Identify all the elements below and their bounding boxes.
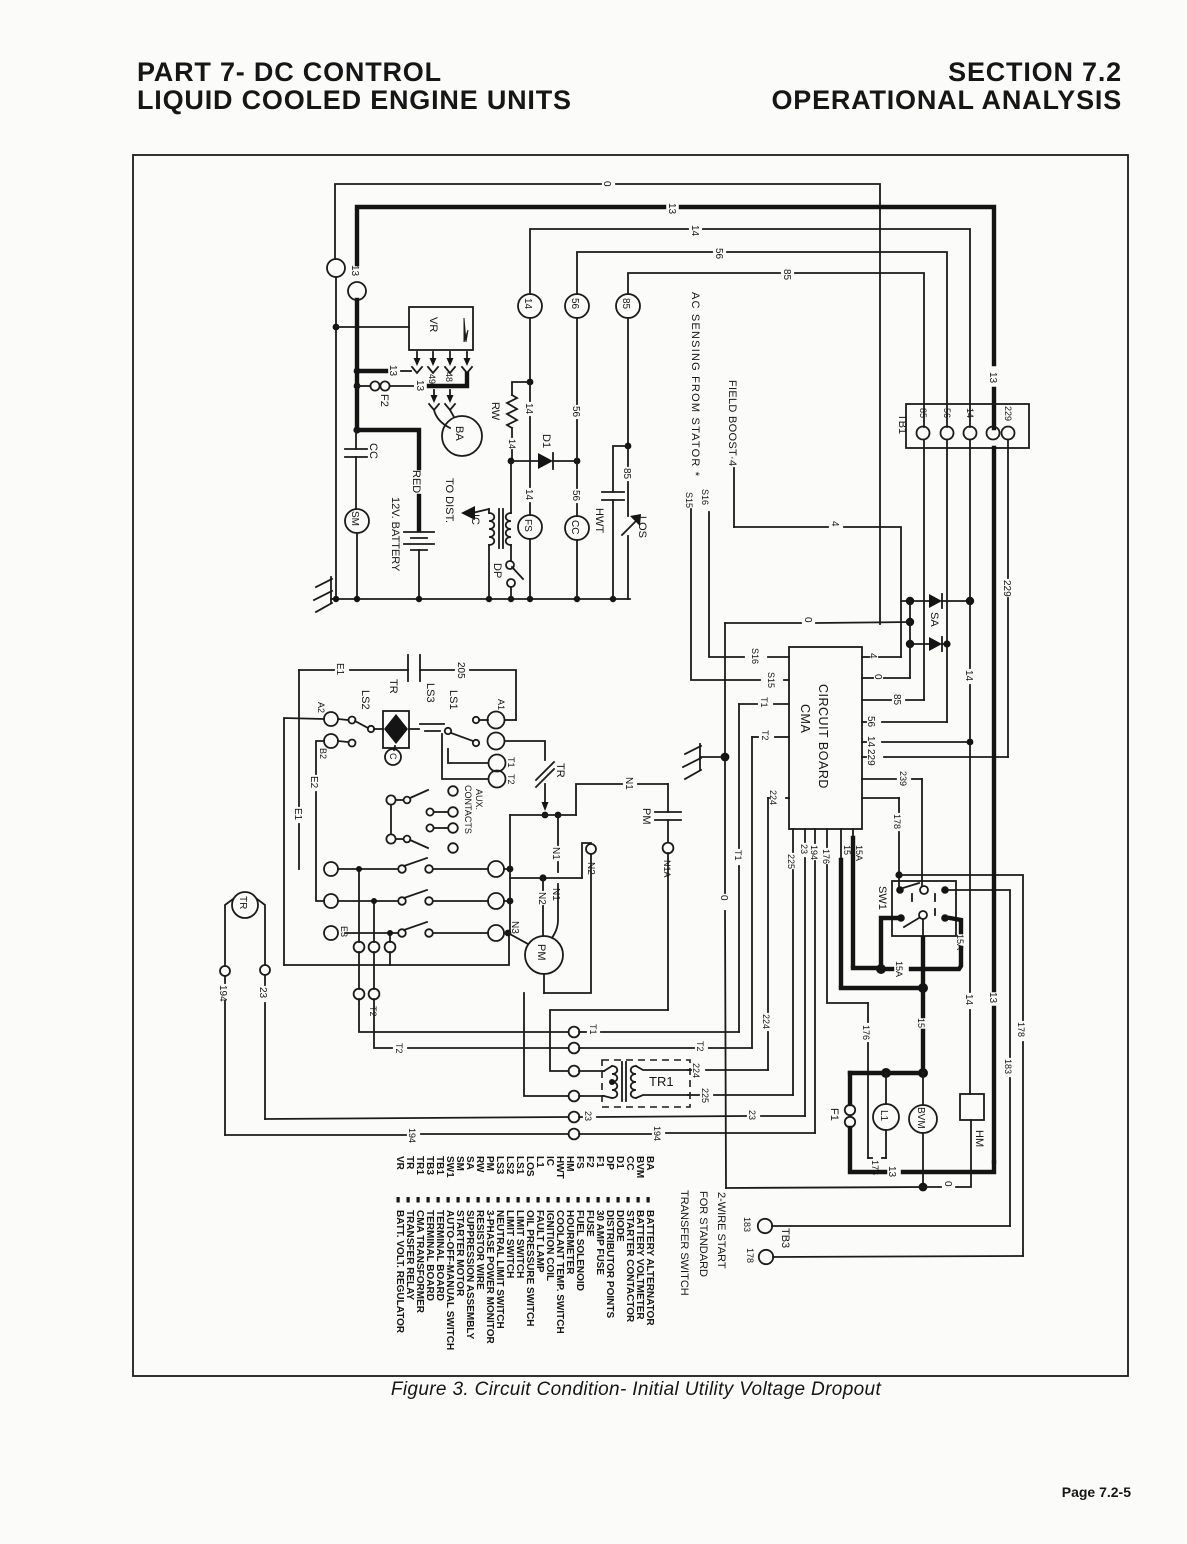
distributor points DP [506,561,523,599]
2-WIRE START note [678,1190,727,1296]
svg-text:SECTION 7.2: SECTION 7.2 [948,57,1122,87]
node junction N1 branch [555,812,562,819]
row 23 wire [265,1116,805,1119]
fuse F2 [357,381,413,390]
motor C [385,749,401,765]
node 56 labels on drop [570,406,581,502]
svg-text:VR: VR [427,317,439,332]
SW1 row2 pole drop [922,919,924,938]
limit switch LS2 [355,721,383,732]
wire 178 over SW1 [773,875,1023,1257]
svg-text:TB3: TB3 [779,1228,791,1248]
capacitor CC suppressor [345,430,367,509]
connector circle row T2 [569,1043,580,1054]
svg-text:T2: T2 [394,1043,404,1054]
wire E1 left drop [298,670,300,869]
svg-text:N1: N1 [623,777,634,790]
svg-text:E1: E1 [292,808,303,821]
AUX CONTACTS label [463,785,484,834]
terminal B1 [488,733,546,761]
wire F1 leg thick [848,1073,852,1104]
CMA pin 56 wire [862,440,947,722]
contact row E3 [324,922,511,941]
terminal T1 coil [448,749,506,772]
connector circle row 225 [569,1091,580,1102]
svg-text:TR: TR [554,763,566,778]
svg-text:14: 14 [523,403,534,415]
svg-text:LS1: LS1 [447,690,459,710]
svg-text:229: 229 [865,749,876,766]
node junction BVM top [918,1068,928,1078]
svg-text:178: 178 [745,1248,755,1263]
svg-text:HM: HM [973,1130,985,1147]
CMA pin 225 drop [792,829,794,1095]
svg-text:15A: 15A [854,845,864,861]
node N1 labels on drop [550,847,561,901]
pin 49 second connector pair [429,390,450,428]
suppression assembly SA diode lower [906,637,951,651]
svg-text:225: 225 [786,854,796,869]
svg-text:Page 7.2-5: Page 7.2-5 [1062,1484,1131,1500]
CMA pin 85 wire [862,440,924,700]
svg-text:CMA: CMA [798,704,812,733]
actuator coil C box [383,711,409,750]
row T1 wire right [579,1031,739,1033]
wire to VR box [336,326,409,328]
wire CC to bus [576,540,578,599]
svg-text:E3: E3 [339,926,349,937]
aux vertical tie [390,805,392,834]
svg-text:224: 224 [691,1063,701,1078]
node 14 labels on TB1 drop [963,670,974,1006]
svg-text:S15: S15 [766,672,776,688]
svg-text:DP: DP [491,563,503,578]
ground symbol main [314,577,338,612]
node junction 14 pin [967,739,974,746]
svg-text:RED: RED [410,470,422,493]
VR pin 4 arrow and fork [462,352,472,373]
svg-text:T2: T2 [506,774,516,785]
wire RED lower [417,496,421,530]
wire lamp bus thick [850,1071,923,1075]
svg-text:23: 23 [257,987,268,999]
svg-text:VR: VR [394,1156,405,1171]
aux contact row A [386,786,457,804]
coolant temp switch HWT [602,446,628,599]
CMA pin 229 wire [862,756,1008,758]
terminal A2 [324,712,356,726]
svg-text:S15: S15 [684,492,694,508]
wire net 85 rail [628,273,924,427]
wire 56 drop [576,318,578,516]
svg-text:14: 14 [507,439,517,449]
svg-text:N1A: N1A [662,860,672,878]
svg-text:LIQUID COOLED ENGINE UNITS: LIQUID COOLED ENGINE UNITS [137,85,572,115]
wire thick to RED battery lead [357,430,419,468]
node junction 15A [876,964,886,974]
svg-text:PART 7- DC CONTROL: PART 7- DC CONTROL [137,57,442,87]
svg-text:85: 85 [620,298,631,310]
connector circle row T1 [569,1027,580,1038]
row 194 wire [225,1133,815,1135]
SW1 row1 contacts [896,883,949,901]
svg-text:TR: TR [387,679,399,694]
bus junction dots [333,596,616,602]
row 224 wire to TR1 [579,1070,604,1072]
svg-text:FOR STANDARD: FOR STANDARD [697,1191,709,1277]
fuse F1 [845,1105,855,1127]
CMA pin 239 wire [862,779,922,886]
svg-text:194: 194 [809,845,819,860]
starter motor SM [345,509,369,533]
svg-text:PM: PM [640,808,652,825]
svg-text:48: 48 [444,372,454,382]
svg-text:HWT: HWT [593,508,605,533]
node junction D1 left [508,458,515,465]
terminal circle 14 [518,294,542,318]
svg-text:N3: N3 [509,921,520,934]
svg-text:4: 4 [867,653,878,659]
wire 14 drop [529,318,531,382]
svg-text:0: 0 [601,181,612,187]
connector pair column T1 [354,866,568,1032]
svg-text:AUX.: AUX. [474,789,484,810]
svg-text:OPERATIONAL ANALYSIS: OPERATIONAL ANALYSIS [771,85,1122,115]
svg-text:85: 85 [781,269,792,281]
svg-text:CIRCUIT BOARD: CIRCUIT BOARD [816,684,830,789]
svg-text:15: 15 [842,845,852,855]
wire 13 upper stub [335,277,337,599]
wire net 0 drop to bottom [725,757,726,1188]
svg-text:F2: F2 [378,394,390,407]
svg-text:15A: 15A [955,934,965,950]
wire 15A to SW1 row2 left [881,918,897,966]
transformer TR1 box [602,1060,690,1107]
svg-text:LS3: LS3 [424,683,436,703]
voltage regulator VR [409,307,473,350]
svg-text:T1: T1 [759,697,769,708]
CMA pin T1 wire [739,703,789,705]
svg-text:56: 56 [865,716,876,728]
svg-text:229: 229 [1003,406,1013,421]
svg-text:14: 14 [523,489,534,501]
svg-text:12V. BATTERY: 12V. BATTERY [389,497,401,572]
svg-text:BATT. VOLT. REGULATOR: BATT. VOLT. REGULATOR [394,1210,405,1334]
svg-text:176: 176 [821,849,831,864]
diode D1 [511,453,577,469]
VR pin 3 arrow and fork [445,352,455,373]
terminal board TB1 [906,404,1029,448]
svg-text:TB1: TB1 [896,414,908,434]
wire 229 TB1 drop [1007,440,1009,757]
TO DIST arrow [461,506,489,520]
row 225 wire to TR1 [579,1095,604,1097]
svg-text:D1: D1 [540,434,552,448]
svg-text:AC SENSING FROM STATOR *: AC SENSING FROM STATOR * [689,292,701,477]
svg-text:14: 14 [965,408,975,418]
connector circle row 194 [569,1129,580,1140]
starter contactor CC [565,516,589,540]
svg-text:4: 4 [829,521,840,527]
svg-text:23: 23 [747,1110,757,1120]
fault lamp L1 [873,1073,899,1158]
ignition coil IC [489,509,511,599]
svg-text:56: 56 [569,298,580,310]
node junction battery feed [353,426,360,433]
hourmeter HM [960,1094,984,1120]
svg-text:TO DIST.: TO DIST. [443,478,455,523]
wire N2 junction run [510,843,591,878]
svg-text:CC: CC [569,520,580,534]
node junction HWT branch [625,443,632,450]
svg-text:LS2: LS2 [359,690,371,710]
svg-text:15A: 15A [894,961,904,977]
svg-text:14: 14 [522,298,533,310]
connector circle row 224 [569,1066,580,1077]
svg-text:BVM: BVM [915,1107,926,1129]
svg-text:E2: E2 [308,776,319,789]
CMA pin 4 stub [862,656,901,658]
svg-text:TR: TR [237,896,248,909]
svg-text:56: 56 [570,490,581,502]
CMA pin 15A thick drop [853,829,876,968]
node junction BVM 0 [919,1183,928,1192]
svg-text:14: 14 [865,736,876,748]
svg-text:49: 49 [427,374,437,384]
svg-text:13: 13 [387,365,398,377]
terminal circle 56 [565,294,589,318]
CMA pin 23 drop [804,829,806,1116]
wire SM to ground bus [356,533,358,599]
svg-text:BA: BA [453,426,465,441]
CMA pin 194 drop [814,829,816,1133]
wire N2 long drop [544,854,591,993]
wire net 0 top rail [335,184,880,624]
svg-text:SW1: SW1 [876,886,888,910]
wire 13 row thick right [903,1162,994,1172]
svg-text:13: 13 [666,203,677,215]
svg-text:224: 224 [761,1014,771,1029]
node junction VR feed [333,324,340,331]
svg-text:0: 0 [942,1181,953,1187]
terminal B2 [324,734,356,748]
svg-text:N1: N1 [550,888,561,901]
wire net 13 thick top rail [357,207,994,428]
wire 85 drop [627,318,629,446]
CMA pin 14 wire [862,741,970,743]
wire A2 to left edge [284,718,324,965]
wire E1 to TR cap [299,669,408,671]
wire net 56 rail [577,252,947,427]
SA bus vertical [909,601,911,678]
TR1 windings [604,1062,688,1101]
wire 15 pole thick [921,938,925,1073]
svg-text:N2: N2 [536,892,547,905]
svg-text:229: 229 [1001,580,1012,597]
svg-text:23: 23 [799,844,809,854]
wire 85 lower [627,446,629,599]
node junction N2 [539,874,546,881]
svg-text:0: 0 [872,674,883,680]
row 225 wire right [688,1094,793,1096]
VR internal adjust arrow [464,318,468,342]
svg-text:PM: PM [535,944,547,961]
svg-text:13: 13 [414,380,425,392]
connector circle row 23 [569,1112,580,1123]
wire 205 TR cap to A1 [420,670,516,720]
svg-text:13: 13 [886,1166,897,1178]
svg-text:IC: IC [469,514,481,525]
svg-text:14: 14 [689,225,700,237]
svg-text:183: 183 [742,1217,752,1232]
wire net 0 vertical to ground [724,623,726,757]
wire F1 to 13 row thick [850,1128,885,1172]
node N3 wire to PM [508,933,528,944]
svg-text:183: 183 [1003,1059,1013,1074]
svg-text:225: 225 [700,1088,710,1103]
wire 183 from SW1 [772,890,1010,1226]
diagram frame [133,155,1128,1376]
node 23 row labels [583,1110,757,1121]
svg-text:239: 239 [898,771,908,786]
svg-text:T2: T2 [368,1006,378,1017]
VR pin 1 arrow and fork [412,352,422,373]
aux contact row C [426,823,457,833]
svg-text:Figure 3. Circuit Condition- I: Figure 3. Circuit Condition- Initial Uti… [391,1379,882,1400]
transfer relay TR contact [536,762,554,811]
node junction F2 branch [354,383,361,390]
transfer relay coil capacitor TR [408,655,420,681]
CMA circuit board [789,647,862,829]
terminal circle 13 feed upper [327,259,345,277]
wire net 0 bottom row [726,1120,971,1188]
svg-text:13: 13 [987,372,998,384]
terminal circle 85 [616,294,640,318]
svg-text:178: 178 [1016,1022,1026,1037]
oil pressure switch LOS contact [622,514,641,535]
contact row E2 [324,890,513,909]
svg-text:N1: N1 [550,847,561,860]
CMA pin 0 stub [862,677,910,679]
wire T1 drop [738,704,740,1032]
terminal A1 [473,712,516,729]
wire 13 long vertical thick [992,448,996,1162]
wire contact common vertical [509,815,511,933]
wire N1 junction run [510,784,668,815]
wire B2 to E2 row [316,741,324,901]
wire 14 TB1 drop [969,440,971,1094]
node 194 row labels [407,1126,662,1143]
svg-text:23: 23 [583,1111,593,1121]
svg-text:178: 178 [892,814,902,829]
svg-text:14: 14 [963,994,974,1006]
wire FS to bus [529,539,531,599]
svg-text:E1: E1 [334,663,345,676]
node junction SA 0 [906,618,914,626]
CMA pin T2 wire [752,736,789,738]
svg-text:56: 56 [942,408,952,418]
row T2 wire [408,1047,752,1049]
connector N2 circle [586,844,596,854]
svg-text:L1: L1 [878,1110,889,1122]
VR pin 2 arrow and fork [428,352,438,373]
svg-text:85: 85 [621,468,632,480]
svg-text:C: C [388,753,398,760]
svg-text:SM: SM [349,511,360,526]
wire 13 to VR pin 4 [429,374,467,386]
limit switch LS3 contact bars [409,724,444,731]
svg-text:0: 0 [718,895,729,901]
wire S15 sensing line [691,509,789,680]
svg-text:85: 85 [918,408,928,418]
aux contact row D [386,834,457,852]
svg-text:RW: RW [489,402,501,421]
wire N2 to PM [542,878,544,936]
aux contact row B [426,807,457,817]
wire TR left lead 194 [220,899,233,1135]
svg-text:FS: FS [522,519,533,532]
svg-text:224: 224 [768,790,778,805]
svg-text:194: 194 [652,1126,662,1141]
wire net 0 horizontal [725,622,910,623]
battery voltmeter BVM [909,1073,937,1187]
limit switch LS1 [445,728,479,746]
svg-text:T1: T1 [506,757,516,768]
wire 14 RW leg lower [510,461,512,561]
wire 14 mid [529,382,531,515]
svg-text:S16: S16 [750,648,760,664]
pin 48 second connector pair [445,390,455,417]
wire TR right lead 23 [257,899,270,1119]
svg-text:56: 56 [713,248,724,260]
node junction 15 [918,983,928,993]
svg-text:A1: A1 [496,699,506,710]
svg-text:FIELD BOOST·4: FIELD BOOST·4 [726,380,738,466]
fuel solenoid FS [518,515,542,539]
svg-text:T1: T1 [733,850,743,861]
wire 224 drop [767,798,769,1070]
CMA pin 15 thick drop [841,829,921,988]
wire N1 to PM [552,815,558,938]
svg-text:A2: A2 [316,702,326,713]
svg-text:LOS: LOS [636,516,648,538]
terminal board TB3 [758,1219,773,1264]
svg-text:0: 0 [802,617,813,623]
SW1 row2 contacts [897,909,949,927]
svg-text:TRANSFER SWITCH: TRANSFER SWITCH [678,1190,690,1296]
svg-text:15: 15 [916,1018,926,1028]
svg-text:F1: F1 [828,1108,840,1121]
wire T2 drop [751,737,753,1048]
svg-text:B2: B2 [318,748,328,759]
node junction 0 ground [721,753,730,762]
terminal circle on 13 drop [348,282,366,300]
terminal T2 coil [442,734,506,788]
wire 13 to VR pin 1 [357,369,411,373]
svg-text:2-WIRE START: 2-WIRE START [715,1192,727,1269]
wire 13 thick drop to battery node [355,300,359,430]
resistor RW [507,382,530,461]
wire field boost to CMA pin 4 [734,468,901,657]
node junction D1 right [574,458,581,465]
wire PM to TR1 row4 [524,974,568,1096]
svg-text:T2: T2 [695,1041,705,1052]
row 224 wire right [688,1069,768,1071]
wire switch box bottom edge [284,933,509,965]
CMA pin 178 wire [862,798,899,886]
svg-text:TR1: TR1 [649,1074,674,1089]
battery 12V [404,532,434,599]
